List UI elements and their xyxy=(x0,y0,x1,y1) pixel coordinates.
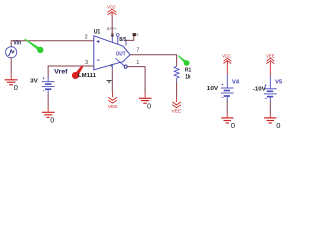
wire R1 bottom to VEE xyxy=(176,78,178,81)
U1 G bubble pin 1 xyxy=(124,65,127,68)
battery V4 10V xyxy=(221,84,234,98)
op-amp U1 LM111 body xyxy=(94,36,130,70)
svg-text:3: 3 xyxy=(85,60,88,66)
wire pin 4 to VEE xyxy=(111,70,113,93)
svg-text:R1: R1 xyxy=(185,67,192,73)
mystery glyph below pin 4 xyxy=(107,80,112,83)
svg-text:1: 1 xyxy=(136,60,139,66)
power symbol VCC (V4) xyxy=(224,58,232,64)
ground 0 (G pin) xyxy=(139,98,152,103)
svg-text:5: 5 xyxy=(136,33,138,37)
svg-text:-10V: -10V xyxy=(253,86,266,92)
svg-text:10V: 10V xyxy=(207,86,219,92)
power symbol VEE (under pin 4) xyxy=(108,97,117,103)
svg-text:VEE: VEE xyxy=(172,109,182,114)
probe marker green 2 xyxy=(178,55,190,66)
U1 pin 6 bubble and stub xyxy=(116,34,119,37)
wire V4 bottom to ground xyxy=(226,96,228,101)
U1 pin 5 stub xyxy=(125,41,127,46)
svg-text:B/S: B/S xyxy=(119,37,126,43)
ground 0 (under Vin) xyxy=(5,80,18,85)
svg-text:V4: V4 xyxy=(232,80,240,86)
svg-text:VEE: VEE xyxy=(266,53,275,58)
probe marker green 1 xyxy=(24,39,43,54)
wire B/S jumper pins 5-6 xyxy=(126,36,134,40)
svg-text:VEE: VEE xyxy=(108,104,118,109)
U1 minus input xyxy=(97,59,100,61)
svg-text:0: 0 xyxy=(14,83,18,92)
power symbol VEE (V5) xyxy=(267,58,275,64)
dangling end square xyxy=(133,33,136,36)
U1 pin 8 stub xyxy=(111,36,113,42)
U1 pin 4 stub xyxy=(111,64,113,70)
svg-text:0: 0 xyxy=(231,121,235,130)
svg-text:VCC: VCC xyxy=(107,5,116,10)
svg-text:7: 7 xyxy=(136,48,139,54)
svg-text:LM111: LM111 xyxy=(78,73,96,79)
probe marker red xyxy=(72,66,83,79)
svg-text:0: 0 xyxy=(276,121,280,130)
battery Vref 3V xyxy=(42,77,55,91)
svg-text:V5: V5 xyxy=(275,79,282,85)
resistor R1 xyxy=(174,66,179,78)
ground 0 (under Vref) xyxy=(42,112,55,117)
svg-text:3V: 3V xyxy=(30,79,38,85)
wire G pin to ground xyxy=(127,67,145,93)
U1 plus input xyxy=(97,40,100,43)
wire VCC to pin 8 xyxy=(111,13,113,17)
wire VCC to V4 xyxy=(226,64,228,75)
wire V5 bottom to ground xyxy=(269,97,271,102)
wire VEE to V5 xyxy=(269,64,271,76)
wire battery Vref top to pin 3 xyxy=(48,66,94,78)
wire Vin top to pin 2 xyxy=(11,41,94,47)
battery V5 -10V xyxy=(264,84,277,98)
svg-text:Vref: Vref xyxy=(54,68,68,75)
power symbol VCC (above U1) xyxy=(108,9,117,16)
ground 0 (under V4) xyxy=(221,118,233,123)
U1 transistor diagonal to G xyxy=(116,58,125,66)
svg-text:VCC: VCC xyxy=(222,54,231,59)
svg-text:2: 2 xyxy=(85,35,88,41)
wire OUT to R1 xyxy=(130,55,177,66)
wire Vin bottom to ground xyxy=(10,58,12,75)
svg-text:OUT: OUT xyxy=(116,52,126,58)
svg-text:Vin: Vin xyxy=(13,40,21,46)
svg-text:1k: 1k xyxy=(185,74,191,80)
power symbol VEE (under R1) xyxy=(172,102,181,108)
svg-text:0: 0 xyxy=(147,101,151,110)
junction dot pin8 xyxy=(111,34,113,36)
wire battery Vref bottom to ground xyxy=(47,90,49,95)
ground 0 (under V5) xyxy=(264,118,276,123)
svg-text:U1: U1 xyxy=(94,30,101,36)
svg-text:0: 0 xyxy=(50,115,54,124)
voltage source Vin (VSIN) xyxy=(6,47,17,58)
